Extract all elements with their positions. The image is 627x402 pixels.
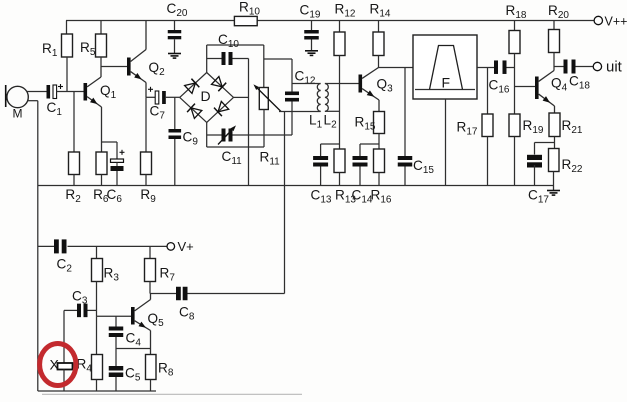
wire — [554, 106, 556, 113]
capacitor C13 — [311, 144, 340, 206]
svg-text:V++: V++ — [605, 14, 627, 28]
wire — [515, 86, 536, 88]
wire — [248, 59, 250, 186]
capacitor C5 — [109, 349, 141, 392]
capacitor C3 — [64, 289, 97, 318]
wire — [339, 56, 341, 150]
capacitor C18 — [554, 60, 593, 92]
resistor R1 — [42, 21, 73, 92]
annotation red circle — [40, 344, 76, 386]
resistor R2 — [65, 92, 81, 206]
resistor R4 — [77, 316, 103, 391]
capacitor C1 — [47, 84, 84, 118]
variable capacitor C11 — [207, 125, 292, 167]
wire — [279, 111, 321, 113]
wire — [42, 393, 302, 395]
svg-text:D: D — [201, 88, 211, 104]
wire — [116, 348, 151, 350]
ground — [168, 54, 181, 59]
wire — [38, 185, 554, 187]
svg-text:X: X — [50, 357, 60, 373]
wire — [206, 122, 208, 147]
wire — [514, 54, 516, 115]
resistor R9 — [140, 97, 156, 205]
wire — [96, 310, 98, 316]
wire — [264, 58, 292, 60]
wire — [97, 315, 132, 317]
capacitor C15 — [398, 68, 435, 186]
wire — [445, 99, 447, 186]
capacitor C2 — [38, 239, 167, 274]
wire — [325, 83, 359, 85]
resistor R18 — [506, 3, 527, 54]
resistor R17 — [457, 68, 494, 186]
capacitor C4 — [109, 316, 142, 348]
resistor R7 — [145, 246, 176, 293]
resistor R5 — [80, 21, 107, 67]
wire — [477, 67, 494, 69]
diode bridge D — [180, 73, 234, 123]
wire — [284, 112, 286, 294]
resistor R21 — [549, 113, 583, 149]
svg-text:M: M — [13, 107, 23, 121]
wire — [101, 107, 103, 152]
wire — [150, 294, 152, 300]
resistor R6 — [93, 152, 109, 205]
capacitor C6 — [102, 142, 125, 205]
wire — [66, 20, 594, 22]
ground — [547, 186, 560, 196]
wire — [206, 45, 208, 73]
capacitor C8 — [151, 287, 195, 323]
wire — [207, 146, 264, 148]
wire — [207, 44, 264, 46]
svg-text:uit: uit — [606, 59, 623, 76]
transistor Q4 — [535, 71, 568, 107]
terminal uit — [593, 59, 622, 76]
capacitor C10 — [207, 32, 249, 65]
terminal V+ — [167, 239, 194, 254]
inductor L2 — [324, 84, 338, 131]
capacitor C12 — [285, 59, 316, 135]
capacitor C7 — [146, 87, 180, 122]
transistor Q5 — [131, 300, 164, 331]
resistor R10 — [234, 0, 260, 26]
terminal V++ — [594, 14, 627, 28]
resistor R3 — [92, 246, 120, 310]
filter F — [413, 35, 477, 99]
capacitor C14 — [352, 144, 380, 206]
wire — [38, 390, 156, 392]
wire — [292, 83, 321, 85]
capacitor C16 — [489, 60, 515, 95]
resistor R15 — [355, 112, 385, 150]
variable resistor R11 — [253, 45, 281, 168]
wire — [187, 293, 285, 295]
transistor Q3 — [359, 68, 394, 101]
resistor R19 — [509, 114, 544, 186]
transistor Q2 — [127, 21, 165, 83]
capacitor C9 — [169, 97, 199, 185]
resistor R14 — [370, 2, 391, 68]
crystal X — [50, 310, 73, 391]
ground — [305, 51, 318, 56]
wire — [101, 66, 127, 68]
wire — [150, 331, 152, 355]
resistor R22 — [549, 149, 583, 186]
transistor Q1 — [84, 67, 117, 108]
svg-text:V+: V+ — [178, 239, 194, 254]
capacitor C20 — [167, 1, 188, 54]
wire — [379, 67, 414, 69]
capacitor C17 — [527, 143, 555, 206]
wire — [378, 100, 380, 112]
inductor L1 — [309, 84, 323, 131]
wire — [234, 96, 249, 98]
wire — [37, 101, 39, 391]
resistor R12 — [334, 2, 356, 56]
resistor R13 — [334, 149, 356, 206]
resistor R16 — [371, 149, 392, 206]
resistor R8 — [146, 355, 174, 392]
svg-text:F: F — [442, 75, 451, 91]
resistor R20 — [548, 3, 569, 71]
wire — [145, 83, 147, 98]
capacitor C19 — [300, 3, 321, 51]
microphone M — [6, 85, 47, 121]
wire — [325, 110, 340, 112]
